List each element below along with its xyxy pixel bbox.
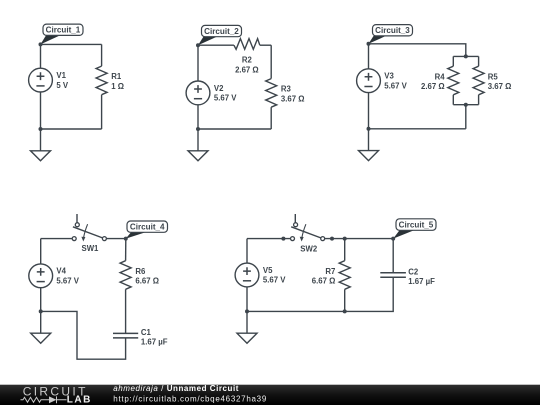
svg-text:1 Ω: 1 Ω — [111, 82, 124, 91]
switch SW2 — [291, 214, 325, 242]
wire switch left to V4 branch c4 — [41, 238, 72, 240]
label Circuit_1 callout — [41, 24, 84, 44]
svg-text:3.67 Ω: 3.67 Ω — [488, 82, 512, 91]
wire left branch c1 — [40, 44, 42, 68]
wire top rail left c5 — [247, 238, 291, 240]
node c2 top — [196, 43, 200, 47]
node C2 top — [391, 237, 395, 241]
wire R6 top lead c4 — [125, 239, 127, 261]
node c3 top — [367, 42, 371, 46]
wire C2 top lead c5 — [392, 239, 394, 273]
svg-text:5 V: 5 V — [56, 81, 69, 90]
node R7 top — [343, 237, 347, 241]
svg-text:1.67 µF: 1.67 µF — [141, 338, 168, 347]
svg-text:V4: V4 — [56, 267, 66, 276]
resistor R1 — [96, 66, 107, 95]
svg-text:R2: R2 — [242, 55, 253, 64]
svg-text:6.67 Ω: 6.67 Ω — [135, 277, 159, 286]
wire left branch c3 — [368, 44, 370, 69]
svg-text:C2: C2 — [408, 268, 419, 277]
wire V2 bottom c2 — [197, 105, 199, 129]
ground c1 — [31, 129, 51, 161]
svg-text:http://circuitlab.com/cbqe4632: http://circuitlab.com/cbqe46327ha39 — [113, 394, 267, 403]
voltage source V4 — [29, 264, 53, 288]
svg-text:R6: R6 — [135, 267, 146, 276]
node c1 bottom — [39, 127, 43, 131]
node sw2 left dot — [281, 237, 285, 241]
wire bottom rail c3 — [369, 128, 466, 130]
ground c4 — [31, 311, 51, 343]
svg-text:V3: V3 — [384, 72, 394, 81]
svg-text:R3: R3 — [281, 85, 292, 94]
wire right lead bottom c1 — [101, 95, 103, 129]
wire bottom rail c5 — [247, 277, 393, 311]
logo resistor-diode glyph — [21, 396, 67, 403]
svg-text:Circuit_2: Circuit_2 — [204, 27, 239, 36]
wire V5 bottom lead c5 — [246, 287, 248, 312]
wire V3 bottom c3 — [368, 93, 370, 129]
svg-text:Circuit_5: Circuit_5 — [399, 220, 434, 229]
resistor R6 — [120, 261, 131, 290]
wire switch right to node c4 — [106, 238, 125, 240]
label Circuit_5 callout — [393, 219, 436, 239]
wire parallel bottom bridge c3 — [453, 104, 478, 106]
node c4 top — [124, 237, 128, 241]
wire R5 top lead — [478, 56, 480, 66]
wire top rail right c5 — [325, 238, 393, 240]
wire top rail c3 — [369, 44, 466, 57]
node c2 bottom — [196, 127, 200, 131]
svg-text:Circuit_4: Circuit_4 — [130, 223, 165, 232]
wire parallel stem bottom c3 — [465, 105, 467, 129]
wire top rail right c2 — [260, 44, 271, 46]
wire R4 bottom lead — [452, 95, 454, 105]
wire R5 bottom lead — [478, 95, 480, 105]
svg-text:Circuit_3: Circuit_3 — [375, 26, 410, 35]
wire parallel top bridge c3 — [453, 55, 478, 57]
wire R4 top lead — [452, 56, 454, 66]
resistor R5 — [473, 66, 484, 95]
svg-text:5.67 V: 5.67 V — [56, 276, 79, 285]
node c3 bottom — [367, 127, 371, 131]
svg-text:V2: V2 — [214, 84, 224, 93]
ground c3 — [359, 129, 379, 161]
wire R7 top lead c5 — [344, 239, 346, 261]
svg-text:V1: V1 — [56, 71, 66, 80]
svg-text:1.67 µF: 1.67 µF — [408, 277, 435, 286]
wire V5 top lead c5 — [246, 239, 248, 264]
svg-text:5.67 V: 5.67 V — [384, 81, 407, 90]
svg-text:C1: C1 — [141, 328, 152, 337]
svg-text:Circuit_1: Circuit_1 — [46, 26, 81, 35]
wire top rail left c2 — [198, 44, 234, 46]
label Circuit_2 callout — [198, 25, 242, 45]
wire right lead bottom c2 — [270, 107, 272, 129]
node c4 bottom — [39, 309, 43, 313]
node c1 top — [39, 42, 43, 46]
voltage source V5 — [235, 263, 259, 287]
capacitor C2 — [380, 273, 406, 278]
wire bottom rail c2 — [198, 128, 271, 130]
node c3 parallel bottom junction — [464, 103, 468, 107]
svg-text:5.67 V: 5.67 V — [214, 94, 237, 103]
wire R7 bottom lead c5 — [344, 289, 346, 311]
node sw2 right dot — [330, 237, 334, 241]
resistor R2 — [234, 39, 260, 50]
switch SW1 — [72, 214, 106, 242]
svg-text:V5: V5 — [263, 266, 273, 275]
wire R6 bottom to C1 c4 — [125, 289, 127, 333]
resistor R7 — [339, 261, 350, 290]
svg-text:3.67 Ω: 3.67 Ω — [281, 94, 305, 103]
capacitor C1 — [113, 333, 138, 338]
node R7 bottom — [343, 309, 347, 313]
svg-text:2.67 Ω: 2.67 Ω — [421, 82, 445, 91]
footer background — [0, 0, 1, 1]
svg-text:6.67 Ω: 6.67 Ω — [312, 277, 336, 286]
wire V1 bottom c1 — [40, 92, 42, 129]
wire left branch c2 — [197, 45, 199, 81]
wire top rail c1 — [41, 43, 102, 45]
voltage source V3 — [357, 69, 381, 93]
resistor R3 — [266, 79, 277, 108]
label Circuit_4 callout — [126, 221, 168, 239]
node c3 parallel top junction — [464, 54, 468, 58]
svg-text:2.67 Ω: 2.67 Ω — [235, 65, 259, 74]
svg-text:R4: R4 — [435, 73, 446, 82]
wire right lead top c1 — [101, 44, 103, 66]
label Circuit_3 callout — [369, 25, 413, 44]
ground c2 — [188, 129, 208, 161]
resistor R4 — [448, 66, 459, 95]
svg-text:SW1: SW1 — [82, 244, 100, 253]
svg-text:R1: R1 — [111, 72, 122, 81]
svg-text:5.67 V: 5.67 V — [263, 276, 286, 285]
ground c5 — [237, 311, 257, 343]
svg-text:R5: R5 — [488, 73, 499, 82]
voltage source V1 — [29, 68, 53, 92]
wire V4 bottom lead c4 — [40, 288, 42, 312]
svg-text:LAB: LAB — [67, 395, 92, 405]
wire bottom jog c4 — [41, 311, 126, 359]
svg-text:ahmediraja / Unnamed Circuit: ahmediraja / Unnamed Circuit — [113, 384, 239, 393]
voltage source V2 — [186, 81, 210, 105]
node c5 ground junction — [245, 309, 249, 313]
wire V4 top lead c4 — [40, 239, 42, 264]
svg-text:SW2: SW2 — [300, 244, 318, 253]
wire bottom rail c1 — [41, 128, 102, 130]
svg-text:R7: R7 — [325, 267, 335, 276]
wire right lead top c2 — [270, 45, 272, 78]
